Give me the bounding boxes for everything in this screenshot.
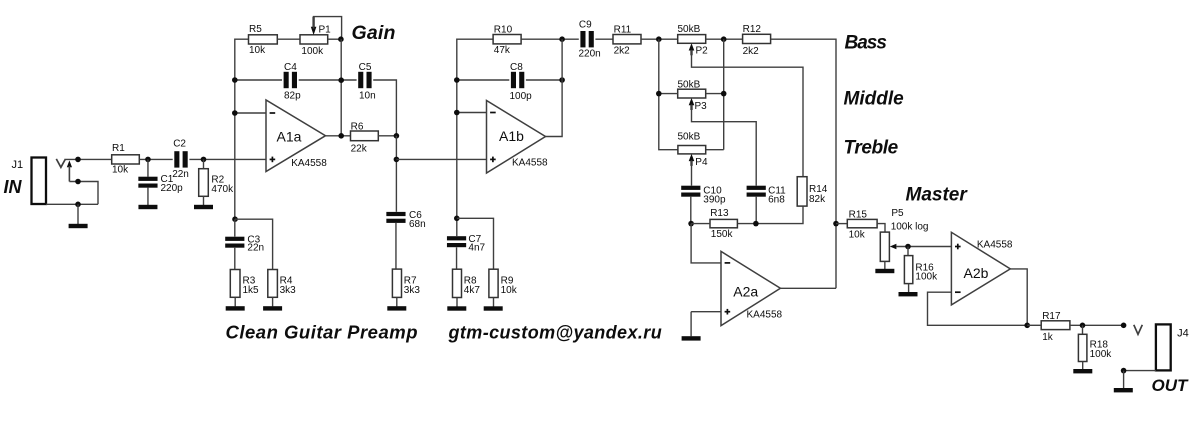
ground C1 <box>138 205 157 209</box>
potentiometer P1 <box>300 25 331 57</box>
wire P1 right terminal <box>328 38 342 40</box>
svg-text:10k: 10k <box>112 164 129 175</box>
node C8 left <box>454 77 460 83</box>
wire R13 left <box>691 223 710 225</box>
svg-text:R5: R5 <box>249 24 262 35</box>
resistor R3 <box>230 270 259 298</box>
wire node to R4 <box>235 219 273 269</box>
resistor R2 <box>199 169 234 197</box>
wire bass feedback vertical <box>771 39 836 288</box>
wire down to C6 <box>395 136 397 212</box>
svg-text:R10: R10 <box>494 25 513 36</box>
wire A2b output <box>1010 269 1027 325</box>
wire R16 to ground <box>908 284 910 293</box>
op-amp A1a <box>266 100 327 172</box>
resistor R16 <box>904 256 938 284</box>
wire C7 to R8 <box>456 247 458 269</box>
capacitor C2 <box>172 138 189 180</box>
svg-text:A2b: A2b <box>964 265 989 281</box>
P3 wiper arrow <box>689 98 695 110</box>
wire tone left vertical <box>659 39 678 150</box>
capacitor C8 <box>510 62 533 102</box>
svg-text:100k: 100k <box>301 46 324 57</box>
potentiometer P2 <box>678 24 709 57</box>
svg-text:50kB: 50kB <box>678 132 701 143</box>
potentiometer P4 <box>678 132 708 168</box>
resistor R6 <box>351 121 379 154</box>
node P2-R12 <box>721 36 727 42</box>
wire R14 bottom to R13 <box>737 206 803 224</box>
svg-text:C8: C8 <box>510 62 523 73</box>
svg-text:J1: J1 <box>12 159 24 171</box>
node A1a inverting input <box>232 110 238 116</box>
node J1 tip <box>75 157 81 163</box>
svg-text:10k: 10k <box>501 285 518 296</box>
wire A2a output <box>780 287 836 289</box>
svg-text:Treble: Treble <box>844 138 899 159</box>
svg-text:1k5: 1k5 <box>243 285 260 296</box>
svg-text:R17: R17 <box>1042 311 1061 322</box>
node P3 right <box>721 91 727 97</box>
svg-text:3k3: 3k3 <box>280 285 297 296</box>
wire to R15 <box>836 223 847 225</box>
wire A2b feedback loop <box>928 292 1028 325</box>
wire R5 to P1 <box>277 38 300 40</box>
wire to C4 <box>235 79 282 81</box>
capacitor C1 <box>138 174 183 194</box>
svg-text:Middle: Middle <box>844 89 905 110</box>
P1 wiper arrow <box>311 17 317 35</box>
wire C5 to A1a output node <box>373 80 396 136</box>
wire R9 to ground <box>493 298 495 307</box>
node C7 top <box>454 216 460 222</box>
capacitor C7 <box>447 234 486 254</box>
node J1 sleeve <box>75 202 81 208</box>
resistor R7 <box>392 269 420 297</box>
svg-text:220p: 220p <box>161 183 184 194</box>
node tone stack top left <box>656 36 662 42</box>
svg-text:KA4558: KA4558 <box>512 157 548 168</box>
wire to R17 <box>1027 324 1041 326</box>
wire A1b output loop <box>546 39 563 136</box>
node J4 tip <box>1121 323 1127 329</box>
wire node to R9 <box>457 218 494 269</box>
capacitor C10 <box>681 186 726 206</box>
svg-text:A1b: A1b <box>499 128 524 144</box>
ground R18 <box>1073 369 1092 373</box>
node R13 left <box>688 221 694 227</box>
op-amp A1b <box>487 101 549 174</box>
P4 wiper arrow <box>689 154 695 166</box>
svg-text:82p: 82p <box>284 91 301 102</box>
resistor R4 <box>268 270 296 298</box>
wire C1 to ground <box>147 188 149 205</box>
svg-text:100k log: 100k log <box>891 222 929 233</box>
svg-text:10k: 10k <box>249 45 266 56</box>
svg-text:R1: R1 <box>112 143 125 154</box>
svg-text:4k7: 4k7 <box>464 285 481 296</box>
wire C6 to R7 <box>395 223 397 269</box>
node J4 sleeve <box>1121 368 1127 374</box>
wire to R16 <box>907 247 909 256</box>
node R13 right <box>753 221 759 227</box>
svg-text:10k: 10k <box>849 230 866 241</box>
svg-text:6n8: 6n8 <box>768 195 785 206</box>
svg-text:C9: C9 <box>579 19 592 30</box>
ground P5 <box>875 269 894 273</box>
capacitor C9 <box>579 19 601 59</box>
wire R3 to ground <box>234 297 236 306</box>
svg-text:Clean Guitar Preamp: Clean Guitar Preamp <box>226 322 419 343</box>
svg-text:P2: P2 <box>696 46 709 57</box>
ground R7 <box>387 306 406 310</box>
op-amp A2b <box>951 232 1013 305</box>
resistor R12 <box>743 24 771 57</box>
capacitor C3 <box>225 235 264 254</box>
svg-text:470k: 470k <box>211 184 234 195</box>
ground A2a input <box>682 336 701 340</box>
potentiometer P3 <box>678 80 708 112</box>
svg-text:50kB: 50kB <box>678 24 701 35</box>
resistor R1 <box>112 143 140 175</box>
svg-text:KA4558: KA4558 <box>977 239 1013 250</box>
wire to A1a inverting input <box>235 112 266 114</box>
svg-text:OUT: OUT <box>1152 376 1190 395</box>
wire P4 right stub <box>706 149 724 151</box>
svg-text:R15: R15 <box>849 209 868 220</box>
svg-text:22n: 22n <box>172 169 189 180</box>
wire C11 to R13 row <box>755 197 757 224</box>
wire to R2 <box>203 159 205 168</box>
svg-text:22k: 22k <box>351 144 368 155</box>
resistor R15 <box>847 209 877 240</box>
svg-text:50kB: 50kB <box>678 80 701 91</box>
J1 switch arrow <box>67 160 72 181</box>
capacitor C5 <box>358 62 375 102</box>
ground R8 <box>447 306 466 310</box>
resistor R10 <box>493 25 521 57</box>
svg-text:IN: IN <box>4 177 23 197</box>
wire R6 to node <box>378 135 396 137</box>
wire J1 ring contact <box>69 182 98 205</box>
P5 wiper arrow <box>890 244 897 249</box>
wire P5 to ground <box>884 261 886 269</box>
capacitor C4 <box>284 62 302 102</box>
J4 tip contact V <box>1134 325 1143 335</box>
resistor R11 <box>613 25 641 57</box>
wire to R18 <box>1082 325 1084 334</box>
input jack J1 <box>12 158 47 205</box>
wire P2 right vertical <box>723 39 725 150</box>
wire to A2a noninverting input <box>691 311 721 313</box>
node C4-C5 <box>338 77 344 83</box>
ground J1 <box>69 224 88 228</box>
wire R7 to ground <box>396 297 398 306</box>
wire A1b inverting node vertical <box>457 39 493 236</box>
op-amp A2a <box>721 251 783 325</box>
svg-text:R12: R12 <box>743 24 762 35</box>
wire to C1 <box>147 159 149 176</box>
svg-text:A2a: A2a <box>733 284 758 300</box>
wire C2 to A1a noninverting input <box>189 158 266 160</box>
ground R3 <box>226 306 245 310</box>
wire A1a inverting node vertical <box>235 39 249 219</box>
svg-text:P5: P5 <box>891 208 904 219</box>
svg-text:C4: C4 <box>284 62 297 73</box>
svg-text:22n: 22n <box>247 243 264 254</box>
wire C9 to R11 <box>595 38 613 40</box>
wire R1 to C2 <box>139 158 172 160</box>
svg-text:KA4558: KA4558 <box>747 310 783 321</box>
J1 tip contact V <box>56 159 65 167</box>
wire P1 wiper loop <box>314 17 342 40</box>
wire to C8 <box>457 79 510 81</box>
wire P3 right <box>706 93 724 95</box>
output jack J4 <box>1156 324 1189 370</box>
resistor R18 <box>1078 334 1112 361</box>
node C4 left <box>232 77 238 83</box>
svg-text:A1a: A1a <box>277 128 302 144</box>
node interstage rail <box>394 157 400 163</box>
svg-text:R11: R11 <box>614 25 632 36</box>
capacitor C6 <box>386 210 425 230</box>
node A1a output <box>338 133 344 139</box>
svg-text:J4: J4 <box>1177 328 1189 340</box>
wire R17 to J4 <box>1070 324 1124 326</box>
svg-text:150k: 150k <box>711 229 734 240</box>
svg-text:C5: C5 <box>359 62 372 73</box>
wire J1 tip to R1 <box>66 158 112 160</box>
wire to C3 top <box>234 219 236 236</box>
svg-text:1k: 1k <box>1042 332 1054 343</box>
svg-text:100k: 100k <box>1090 349 1113 360</box>
wire P2 wiper to R14 <box>692 50 804 177</box>
svg-text:47k: 47k <box>494 45 511 56</box>
node R17-R18 <box>1080 323 1086 329</box>
wire R8 to ground <box>456 298 458 307</box>
svg-text:4n7: 4n7 <box>468 243 485 254</box>
svg-text:P1: P1 <box>319 25 332 36</box>
wire A2a noninverting to ground <box>690 312 692 337</box>
wire to A1b noninverting input <box>396 158 486 160</box>
wire to P3 left <box>659 93 678 95</box>
node C8 right <box>559 77 565 83</box>
node A1b inverting input <box>454 110 460 116</box>
svg-text:2k2: 2k2 <box>743 46 760 57</box>
resistor R8 <box>453 269 481 297</box>
node A2b output <box>1024 323 1030 329</box>
wire P4 wiper to C10 <box>691 160 693 185</box>
svg-text:R6: R6 <box>351 121 364 132</box>
resistor R13 <box>710 208 737 240</box>
ground J4 <box>1114 388 1133 392</box>
wire P5 wiper to A2b <box>896 246 951 248</box>
node C3 top <box>232 216 238 222</box>
wire C8 right <box>526 79 562 81</box>
wire R4 to ground <box>272 297 274 306</box>
svg-text:2k2: 2k2 <box>614 46 631 57</box>
svg-text:3k3: 3k3 <box>404 285 421 296</box>
node A2a feedback <box>833 221 839 227</box>
node C2-R2 <box>201 157 207 163</box>
svg-text:R13: R13 <box>710 208 729 219</box>
wire gain node vertical <box>340 39 342 136</box>
wire C10 to R13 row <box>690 197 692 224</box>
svg-text:82k: 82k <box>809 194 826 205</box>
P2 wiper arrow <box>689 43 695 55</box>
wire J1 sleeve <box>46 203 98 205</box>
wire R11 to P2 <box>641 38 678 40</box>
ground R2 <box>194 205 213 209</box>
node R1-C1 <box>145 157 151 163</box>
resistor R14 <box>797 177 828 206</box>
wire J1 sleeve to ground <box>77 204 79 224</box>
wire R18 to ground <box>1082 362 1084 370</box>
node P5 wiper <box>905 244 911 250</box>
svg-text:Master: Master <box>906 185 969 206</box>
svg-text:Bass: Bass <box>845 33 887 54</box>
wire to A2a inverting input <box>691 224 721 263</box>
wire P2 to R12 <box>706 38 743 40</box>
wire R10 to C9 <box>521 38 579 40</box>
svg-text:100p: 100p <box>510 91 533 102</box>
svg-text:C2: C2 <box>173 138 186 149</box>
wire C3 to R3 <box>234 248 236 270</box>
wire to A1b inverting input <box>457 112 487 114</box>
wire J4 sleeve <box>1124 370 1156 372</box>
svg-text:KA4558: KA4558 <box>291 158 327 169</box>
svg-text:390p: 390p <box>703 195 726 206</box>
svg-text:10n: 10n <box>359 91 376 102</box>
node P3 left <box>656 91 662 97</box>
node J1 ring <box>75 179 81 185</box>
ground R4 <box>263 306 282 310</box>
svg-text:100k: 100k <box>915 272 938 283</box>
wire A1a output <box>326 135 351 137</box>
resistor R5 <box>249 24 278 56</box>
ground R16 <box>899 292 918 296</box>
svg-text:220n: 220n <box>579 49 601 60</box>
wire R2 to ground <box>203 196 205 205</box>
svg-text:Gain: Gain <box>352 22 396 44</box>
wire R15 to P5 <box>877 224 885 233</box>
capacitor C11 <box>747 186 787 206</box>
node P1-C5 <box>338 36 344 42</box>
node R6 right <box>394 133 400 139</box>
node A1b output top <box>559 36 565 42</box>
wire P3 wiper to C11 <box>692 105 757 186</box>
svg-text:gtm-custom@yandex.ru: gtm-custom@yandex.ru <box>448 322 663 342</box>
potentiometer P5 <box>880 208 928 261</box>
resistor R9 <box>489 269 518 297</box>
resistor R17 <box>1041 311 1070 343</box>
svg-text:68n: 68n <box>409 219 426 230</box>
wire J4 sleeve to ground <box>1123 371 1125 389</box>
svg-text:P4: P4 <box>695 157 708 168</box>
ground R9 <box>484 306 503 310</box>
wire C4 to C5 <box>299 79 357 81</box>
svg-text:P3: P3 <box>695 101 708 112</box>
